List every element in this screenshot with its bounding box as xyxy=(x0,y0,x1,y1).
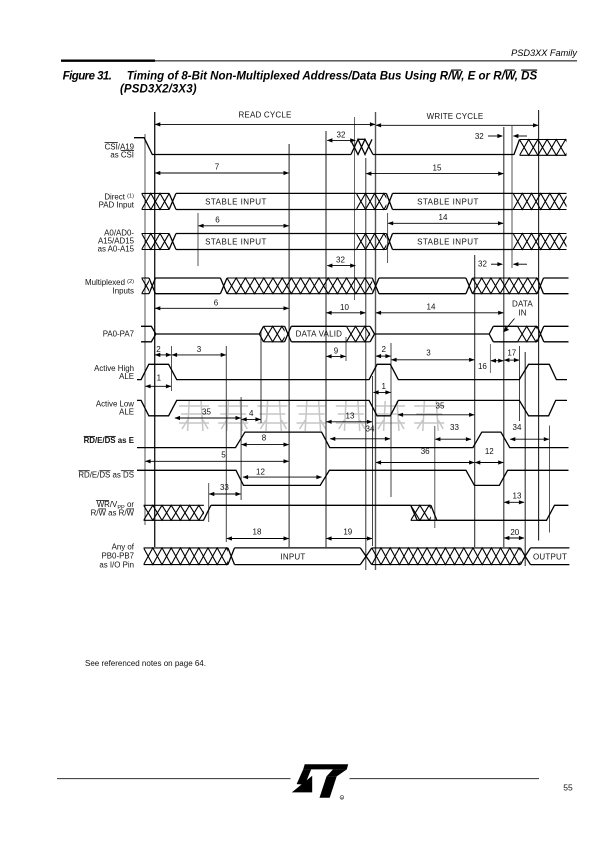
svg-text:32: 32 xyxy=(478,260,487,269)
svg-text:2: 2 xyxy=(381,345,386,354)
svg-text:6: 6 xyxy=(214,299,219,308)
svg-text:36: 36 xyxy=(421,447,430,456)
svg-text:20: 20 xyxy=(510,528,519,537)
svg-text:8: 8 xyxy=(262,433,267,442)
svg-text:See referenced notes on page 6: See referenced notes on page 64. xyxy=(85,659,206,668)
svg-text:as CSI: as CSI xyxy=(110,150,134,159)
svg-text:13: 13 xyxy=(513,491,522,500)
svg-text:DATA VALID: DATA VALID xyxy=(296,330,342,339)
svg-text:13: 13 xyxy=(346,412,355,421)
svg-text:5: 5 xyxy=(221,450,226,459)
svg-text:34: 34 xyxy=(366,425,375,434)
svg-text:32: 32 xyxy=(475,132,484,141)
svg-text:32: 32 xyxy=(336,255,345,264)
svg-text:4: 4 xyxy=(249,409,254,418)
svg-text:Timing of 8-Bit Non-Multiplexe: Timing of 8-Bit Non-Multiplexed Address/… xyxy=(127,71,538,83)
svg-text:Inputs: Inputs xyxy=(113,286,135,295)
svg-text:PAD Input: PAD Input xyxy=(99,200,135,209)
svg-text:2: 2 xyxy=(156,345,161,354)
svg-text:DATA: DATA xyxy=(512,299,533,308)
svg-text:14: 14 xyxy=(427,302,436,311)
svg-text:35: 35 xyxy=(436,401,445,410)
svg-text:ALE: ALE xyxy=(119,372,134,381)
svg-text:55: 55 xyxy=(563,783,573,793)
vertical reference lines xyxy=(144,134,146,525)
waveform CSI/A19 xyxy=(134,138,351,155)
svg-text:10: 10 xyxy=(340,303,349,312)
svg-text:12: 12 xyxy=(256,468,265,477)
svg-text:(PSD3X2/3X3): (PSD3X2/3X3) xyxy=(120,83,197,95)
svg-text:WRITE CYCLE: WRITE CYCLE xyxy=(427,112,484,121)
svg-text:OUTPUT: OUTPUT xyxy=(533,553,567,562)
svg-text:READ CYCLE: READ CYCLE xyxy=(238,111,291,120)
watermark xyxy=(179,401,444,431)
svg-text:1: 1 xyxy=(381,382,386,391)
waveform Active High ALE xyxy=(137,364,567,379)
svg-text:PSD3XX Family: PSD3XX Family xyxy=(511,48,578,58)
svg-text:STABLE INPUT: STABLE INPUT xyxy=(417,197,479,206)
svg-text:3: 3 xyxy=(197,345,202,354)
svg-text:35: 35 xyxy=(202,408,211,417)
svg-text:15: 15 xyxy=(433,163,442,172)
svg-text:9: 9 xyxy=(334,346,339,355)
svg-text:18: 18 xyxy=(253,527,262,536)
svg-text:3: 3 xyxy=(426,349,431,358)
svg-text:STABLE INPUT: STABLE INPUT xyxy=(205,237,267,246)
svg-text:PB0-PB7: PB0-PB7 xyxy=(102,551,134,560)
svg-text:34: 34 xyxy=(513,423,522,432)
svg-text:RD/E/DS as DS: RD/E/DS as DS xyxy=(78,470,134,479)
svg-text:ALE: ALE xyxy=(119,407,134,416)
svg-text:32: 32 xyxy=(337,130,346,139)
svg-text:17: 17 xyxy=(507,348,516,357)
svg-text:33: 33 xyxy=(220,483,229,492)
svg-text:12: 12 xyxy=(485,447,494,456)
svg-text:7: 7 xyxy=(215,163,220,172)
svg-text:PA0-PA7: PA0-PA7 xyxy=(103,329,134,338)
ST logo xyxy=(292,764,348,798)
svg-text:Any of: Any of xyxy=(112,543,135,552)
footer rule xyxy=(57,778,291,780)
svg-text:INPUT: INPUT xyxy=(281,553,306,562)
svg-text:14: 14 xyxy=(439,213,448,222)
waveform RD/E/DS as DS xyxy=(137,470,569,485)
svg-text:IN: IN xyxy=(518,308,526,317)
svg-text:as A0-A15: as A0-A15 xyxy=(98,244,135,253)
svg-text:RD/E/DS as E: RD/E/DS as E xyxy=(84,436,134,445)
svg-text:19: 19 xyxy=(343,527,352,536)
svg-text:STABLE INPUT: STABLE INPUT xyxy=(417,237,479,246)
svg-text:R/W as R/W: R/W as R/W xyxy=(91,508,135,517)
svg-text:Figure 31.: Figure 31. xyxy=(63,71,112,83)
svg-text:33: 33 xyxy=(450,423,459,432)
waveform RD/E/DS as E xyxy=(137,432,569,448)
header rule xyxy=(61,60,155,62)
svg-text:16: 16 xyxy=(478,362,487,371)
svg-text:6: 6 xyxy=(215,215,220,224)
svg-text:1: 1 xyxy=(157,373,162,382)
svg-text:as I/O Pin: as I/O Pin xyxy=(99,560,134,569)
waveform PA0-PA7 xyxy=(141,326,156,342)
svg-text:STABLE INPUT: STABLE INPUT xyxy=(205,197,267,206)
waveform Active Low ALE xyxy=(137,400,567,415)
